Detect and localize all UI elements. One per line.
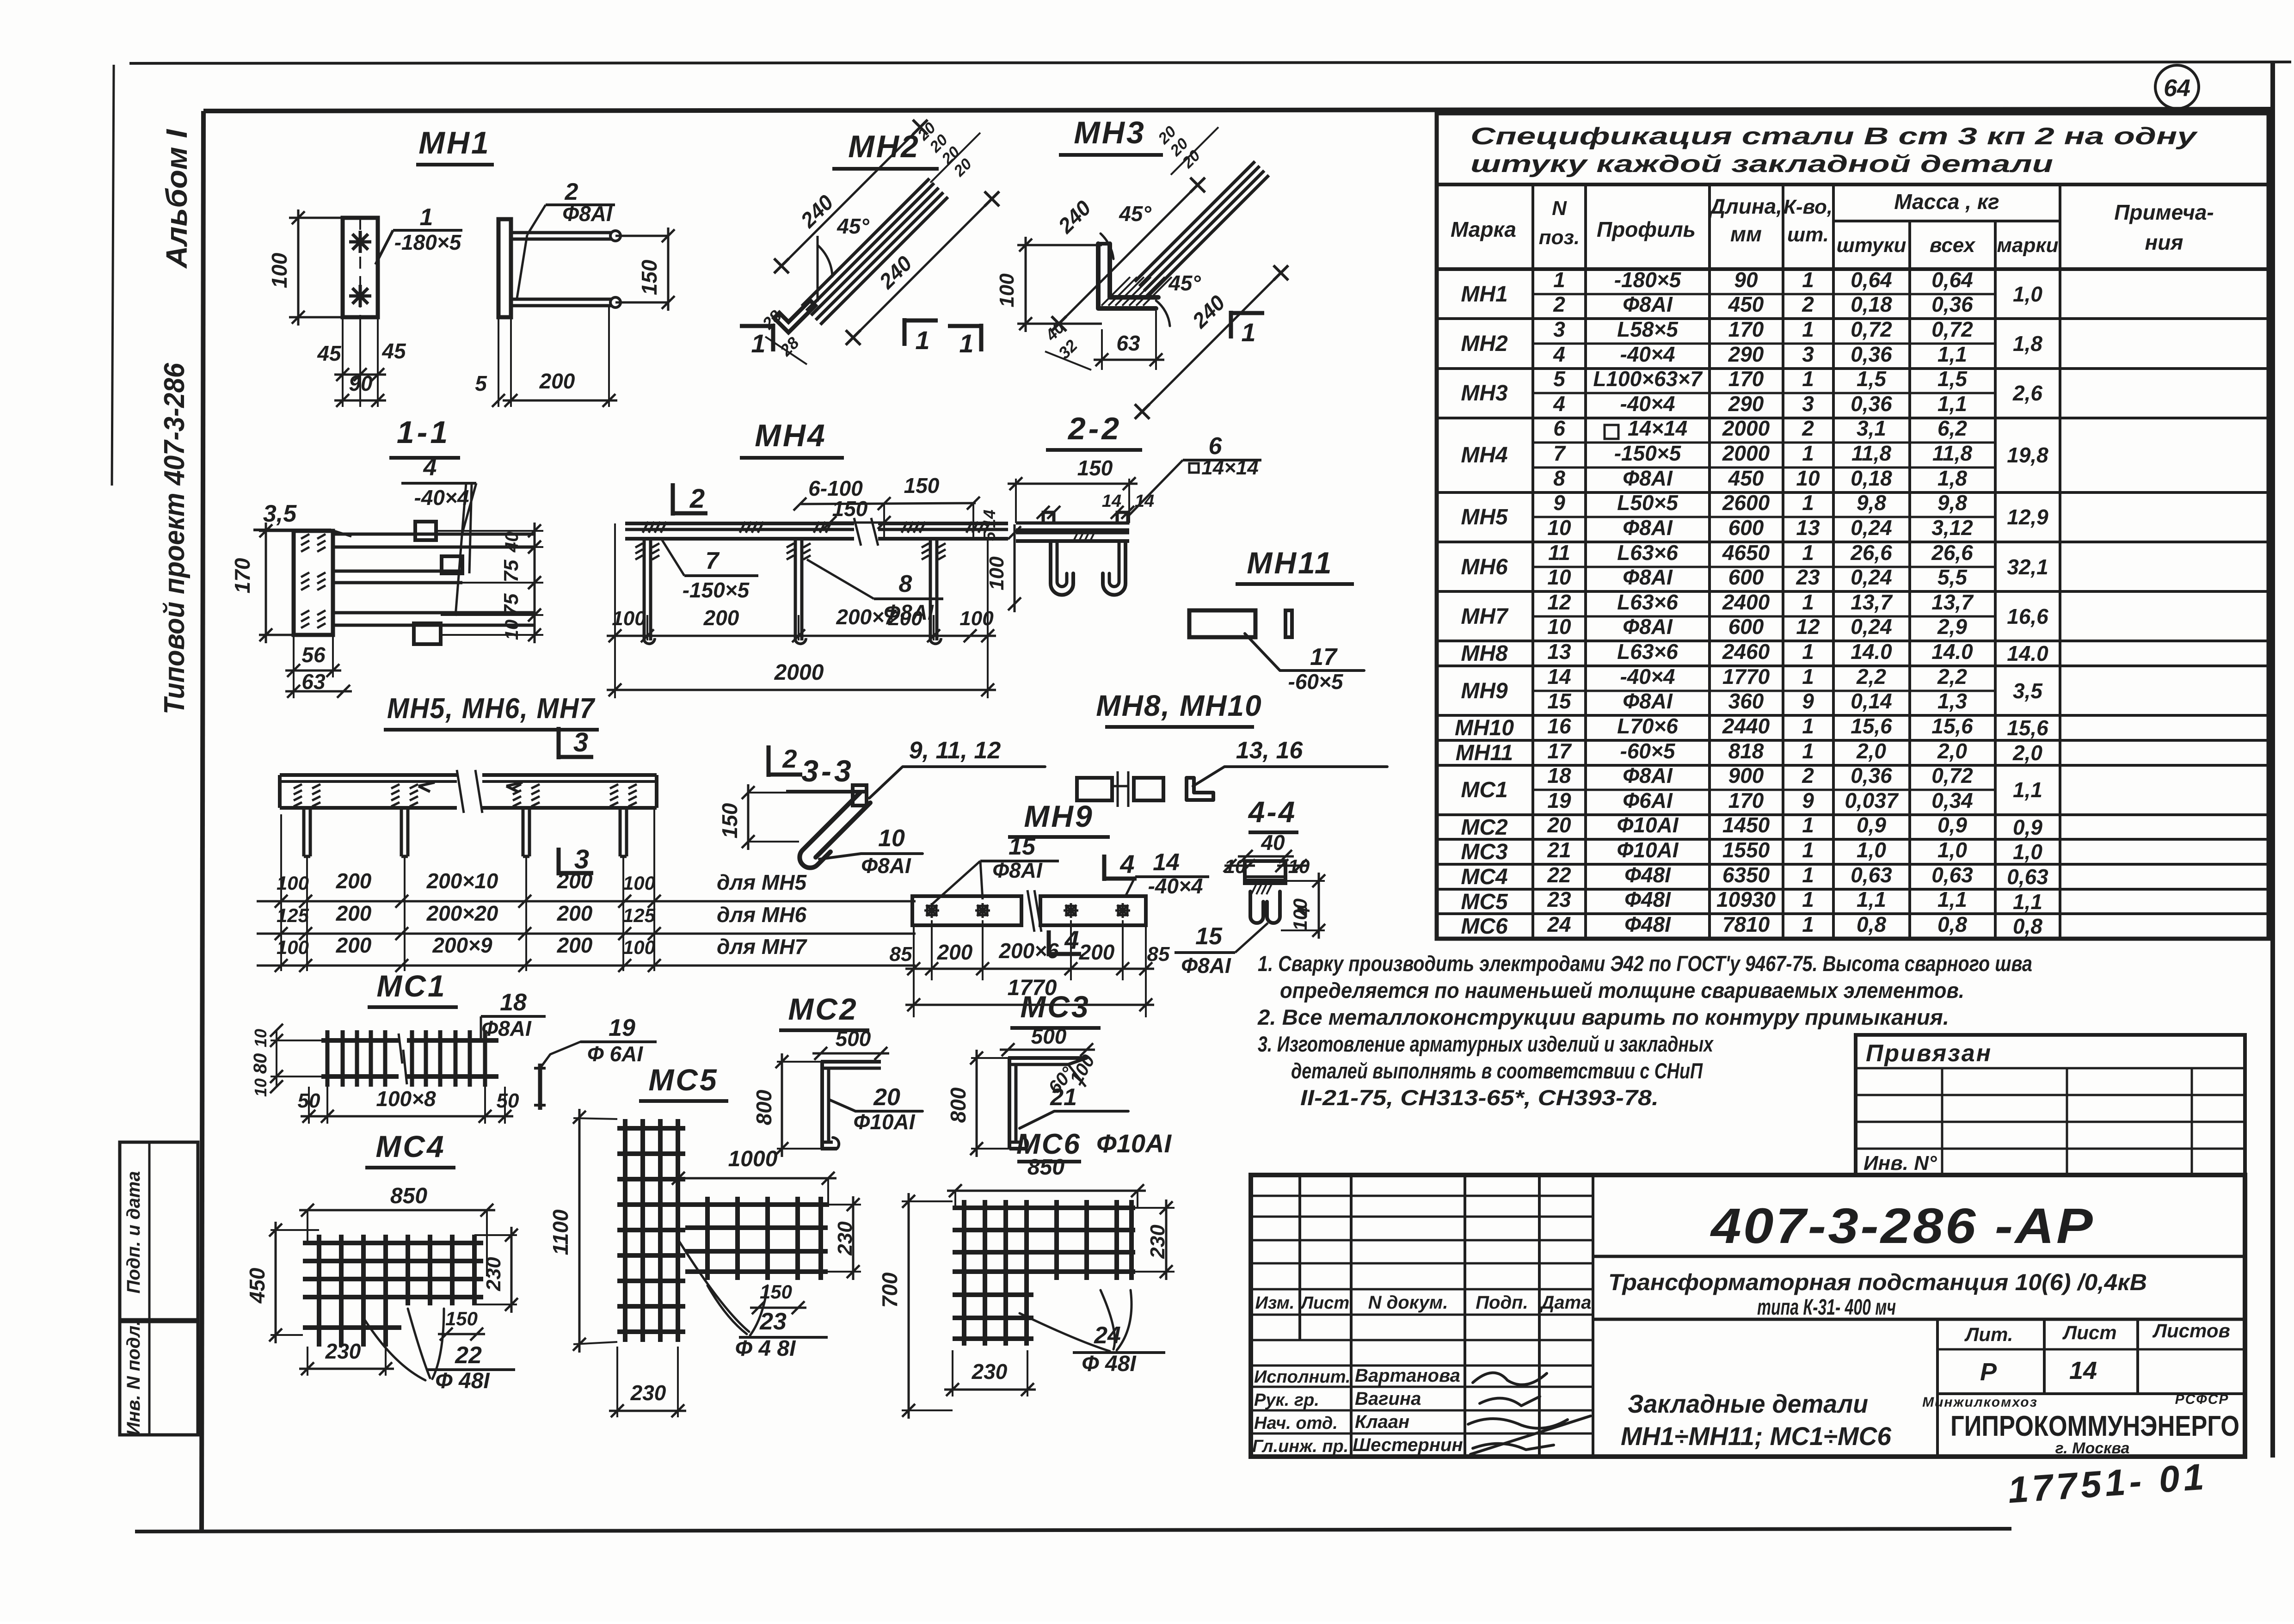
4-4 J hooks <box>1250 892 1280 923</box>
svg-text:2,9: 2,9 <box>1937 615 1967 639</box>
svg-text:МН10: МН10 <box>1455 716 1514 740</box>
svg-text:200: 200 <box>557 933 593 957</box>
svg-text:15,6: 15,6 <box>2007 716 2048 740</box>
svg-text:0,36: 0,36 <box>1851 763 1892 787</box>
svg-text:-40×4: -40×4 <box>1620 664 1675 689</box>
svg-text:150: 150 <box>832 497 868 521</box>
svg-text:1450: 1450 <box>1722 813 1770 837</box>
svg-text:3: 3 <box>1802 392 1814 416</box>
MH1 dim 100 left <box>267 209 343 326</box>
title 1-1 <box>389 415 460 458</box>
svg-text:16,6: 16,6 <box>2007 604 2048 628</box>
2-2 thickness labels 5 14 <box>980 510 999 541</box>
MH2 dim 240 upper left <box>774 120 928 273</box>
svg-text:Изм.: Изм. <box>1255 1293 1295 1313</box>
svg-text:50: 50 <box>298 1089 320 1112</box>
svg-text:2,2: 2,2 <box>1856 664 1886 689</box>
1-1 leader 4 -40x4 <box>401 454 476 616</box>
svg-text:2,6: 2,6 <box>2012 381 2042 405</box>
svg-text:L50×5: L50×5 <box>1617 491 1679 515</box>
svg-text:80: 80 <box>250 1053 271 1074</box>
svg-text:1550: 1550 <box>1722 838 1770 862</box>
svg-text:0,63: 0,63 <box>2007 865 2048 889</box>
MC4 leaders 22 Ф48I <box>363 1309 515 1393</box>
MC4 mesh <box>303 1235 483 1347</box>
MC2 leader 20 Ф10АI <box>829 1084 923 1134</box>
svg-text:90: 90 <box>349 371 373 395</box>
svg-text:0,72: 0,72 <box>1931 763 1973 787</box>
svg-text:МС3: МС3 <box>1461 840 1508 864</box>
notes line 6 <box>1300 1085 1659 1110</box>
svg-text:125: 125 <box>277 904 309 926</box>
svg-text:45°: 45° <box>1168 271 1201 295</box>
MC1 rail top <box>321 1038 498 1043</box>
svg-text:5: 5 <box>980 531 999 541</box>
svg-text:1: 1 <box>1802 367 1814 391</box>
svg-text:13, 16: 13, 16 <box>1236 737 1304 764</box>
svg-text:0,72: 0,72 <box>1931 317 1973 341</box>
svg-text:13: 13 <box>1796 516 1820 540</box>
signatures scribbles <box>1468 1373 1591 1454</box>
MC4 dim 230 right <box>474 1227 518 1313</box>
table group МН11 <box>1437 739 2269 765</box>
notes line 1 <box>1258 951 2032 976</box>
MH9 bar -40x4 left <box>912 896 1021 925</box>
svg-text:Ф48I: Ф48I <box>1624 863 1671 887</box>
svg-text:9: 9 <box>1553 491 1565 515</box>
svg-text:9,8: 9,8 <box>1937 491 1967 515</box>
svg-text:200: 200 <box>539 369 575 393</box>
MH4 plate -150x5 right segment <box>878 522 1008 539</box>
svg-text:II-21-75, СН313-65*, СН393-78: II-21-75, СН313-65*, СН393-78. <box>1300 1085 1659 1110</box>
svg-text:0,24: 0,24 <box>1851 615 1892 639</box>
sheet name <box>1621 1389 1892 1451</box>
MC1 rungs <box>327 1030 485 1087</box>
svg-text:Шестернин: Шестернин <box>1353 1435 1463 1455</box>
svg-text:16: 16 <box>1547 714 1571 738</box>
svg-text:1,5: 1,5 <box>1937 367 1968 391</box>
svg-text:13,7: 13,7 <box>1931 590 1974 614</box>
svg-text:230: 230 <box>325 1339 361 1363</box>
svg-text:21: 21 <box>1050 1084 1077 1111</box>
MC3 corner dims 60 100 <box>1045 1052 1099 1098</box>
svg-text:Альбом I: Альбом I <box>160 129 193 269</box>
svg-text:6,2: 6,2 <box>1937 416 1967 440</box>
svg-text:360: 360 <box>1728 689 1764 713</box>
MC3 channel piece <box>1008 1058 1087 1149</box>
MH1 anchor weld mark bottom <box>349 285 371 307</box>
svg-text:0,64: 0,64 <box>1851 268 1892 292</box>
MH3 section marks 1 <box>948 324 981 358</box>
svg-text:МН11: МН11 <box>1456 741 1513 765</box>
svg-text:МС4: МС4 <box>375 1129 445 1163</box>
svg-text:200: 200 <box>336 901 372 925</box>
svg-text:1: 1 <box>1802 863 1814 887</box>
MC5 dim 230 right <box>828 1196 861 1280</box>
svg-text:290: 290 <box>1728 342 1764 366</box>
MC1 bottom dims 50 100x8 50 <box>298 1087 519 1124</box>
svg-text:11: 11 <box>1548 541 1570 565</box>
svg-text:7810: 7810 <box>1722 912 1770 936</box>
svg-text:170: 170 <box>1728 317 1764 341</box>
svg-text:100: 100 <box>277 872 309 894</box>
svg-text:4650: 4650 <box>1722 541 1770 565</box>
svg-text:1000: 1000 <box>728 1147 778 1171</box>
svg-text:Дата: Дата <box>1540 1292 1592 1313</box>
svg-text:2: 2 <box>1802 292 1814 316</box>
svg-text:L70×6: L70×6 <box>1617 714 1678 738</box>
svg-text:0,34: 0,34 <box>1931 788 1973 812</box>
svg-text:10: 10 <box>502 620 522 640</box>
svg-text:11,8: 11,8 <box>1932 441 1973 465</box>
4-4 dim 100 <box>1281 873 1325 939</box>
svg-text:2400: 2400 <box>1722 590 1770 614</box>
svg-text:Ф8АI: Ф8АI <box>1623 516 1673 540</box>
bottom inventory number 17751-01 <box>2006 1456 2208 1511</box>
svg-text:2: 2 <box>1553 292 1565 316</box>
title MH1 <box>416 125 494 165</box>
svg-text:15,6: 15,6 <box>1851 714 1892 738</box>
MH1 leader 1 -180x5 <box>375 204 462 265</box>
MH3 dim 100 left <box>996 237 1102 332</box>
svg-text:850: 850 <box>1027 1155 1064 1180</box>
svg-text:0,8: 0,8 <box>2013 914 2042 938</box>
svg-text:45: 45 <box>381 339 406 363</box>
inv number label <box>1863 1152 1937 1175</box>
svg-text:20: 20 <box>873 1084 900 1111</box>
4-4 leader 15 Ф8АI <box>1175 923 1268 978</box>
MH1 side view: rod 2 bottom <box>511 297 621 308</box>
svg-text:-180×5: -180×5 <box>1614 268 1682 292</box>
2-2 leader 6 square 14x14 <box>1127 433 1261 517</box>
svg-text:Инв. N подл.: Инв. N подл. <box>123 1321 144 1436</box>
svg-text:10: 10 <box>251 1029 270 1047</box>
svg-text:19: 19 <box>609 1015 635 1041</box>
svg-text:1,5: 1,5 <box>1857 367 1887 391</box>
svg-text:-60×5: -60×5 <box>1620 739 1676 763</box>
svg-text:14.0: 14.0 <box>2007 641 2048 665</box>
title MC1 <box>368 969 458 1007</box>
svg-text:типа К-31- 400 мч: типа К-31- 400 мч <box>1757 1295 1896 1320</box>
svg-text:0,8: 0,8 <box>1937 912 1967 936</box>
svg-text:100: 100 <box>996 273 1018 308</box>
svg-text:100: 100 <box>623 936 655 958</box>
svg-text:3,5: 3,5 <box>263 500 297 527</box>
svg-text:1: 1 <box>1802 664 1814 689</box>
MH1 side view: rod 2 top <box>511 231 621 241</box>
MH9 dim 1770 <box>905 976 1154 1011</box>
svg-text:1: 1 <box>1802 268 1814 292</box>
svg-text:45°: 45° <box>1119 202 1151 226</box>
2-2 square bars on plate <box>1043 512 1128 523</box>
MH5-7 left segment angle plate <box>280 775 457 808</box>
svg-text:2440: 2440 <box>1722 714 1770 738</box>
svg-text:Масса , кг: Масса , кг <box>1894 190 1999 214</box>
svg-text:290: 290 <box>1728 392 1764 416</box>
MH11 plate edge view <box>1285 610 1292 637</box>
mesh 24 dim 850 <box>947 1155 1146 1208</box>
svg-text:1: 1 <box>1802 491 1814 515</box>
svg-text:1,8: 1,8 <box>2013 332 2042 356</box>
svg-text:1: 1 <box>751 329 765 358</box>
svg-text:N: N <box>1552 197 1567 220</box>
svg-text:Типовой проект 407-3-286: Типовой проект 407-3-286 <box>159 363 191 714</box>
svg-text:МС6: МС6 <box>1461 914 1508 939</box>
svg-text:1,1: 1,1 <box>1937 887 1967 911</box>
MH5-7 leg 1138 <box>513 784 540 856</box>
svg-text:8: 8 <box>1553 466 1565 490</box>
2-2 J hook left <box>1051 541 1073 595</box>
svg-text:Профиль: Профиль <box>1597 217 1696 241</box>
MH3 labels 40 32 <box>1041 318 1091 370</box>
svg-text:200×9: 200×9 <box>432 933 492 957</box>
svg-text:14: 14 <box>980 510 999 528</box>
svg-text:9, 11, 12: 9, 11, 12 <box>909 737 1001 764</box>
sheet outer top edge <box>129 62 2291 63</box>
svg-text:1,1: 1,1 <box>2013 778 2042 802</box>
svg-text:МН2: МН2 <box>848 129 920 164</box>
svg-text:150: 150 <box>718 803 742 838</box>
svg-text:15,6: 15,6 <box>1931 714 1973 738</box>
title block staff names <box>1252 1366 1463 1456</box>
2-2 dim 100 left <box>985 524 1021 612</box>
svg-text:Ф6АI: Ф6АI <box>1623 788 1673 812</box>
svg-text:125: 125 <box>623 904 656 926</box>
notes line 5 <box>1291 1058 1703 1083</box>
svg-text:г. Москва: г. Москва <box>2055 1439 2130 1457</box>
svg-text:1100: 1100 <box>548 1209 572 1255</box>
svg-text:поз.: поз. <box>1539 226 1580 249</box>
svg-text:МН5, МН6, МН7: МН5, МН6, МН7 <box>387 693 595 725</box>
svg-text:8: 8 <box>899 571 912 597</box>
title MH9 <box>1008 799 1110 837</box>
svg-text:Лист: Лист <box>2062 1322 2116 1343</box>
svg-text:85: 85 <box>1147 943 1170 966</box>
svg-text:2460: 2460 <box>1722 640 1770 664</box>
1-1 plate section <box>294 531 333 635</box>
svg-text:100×8: 100×8 <box>376 1087 436 1111</box>
svg-text:12,9: 12,9 <box>2007 505 2048 529</box>
svg-text:1-1: 1-1 <box>397 415 450 450</box>
svg-text:14: 14 <box>1102 492 1121 511</box>
svg-text:100: 100 <box>1289 898 1311 931</box>
svg-text:Длина,: Длина, <box>1708 194 1782 218</box>
svg-text:450: 450 <box>245 1267 269 1304</box>
svg-text:МС1: МС1 <box>376 969 446 1003</box>
svg-text:56: 56 <box>301 643 326 667</box>
mesh 24 horizontal arm <box>953 1200 1135 1280</box>
svg-text:0,36: 0,36 <box>1931 292 1973 316</box>
svg-text:штуку каждой закладной д: штуку каждой закладной детали <box>1470 151 2053 178</box>
svg-text:МН3: МН3 <box>1461 381 1508 406</box>
svg-text:Р: Р <box>1980 1358 1997 1386</box>
svg-text:Исполнит.: Исполнит. <box>1254 1367 1351 1387</box>
mesh 24 dim 230 right <box>1135 1200 1175 1280</box>
svg-text:14×14: 14×14 <box>1628 416 1687 440</box>
3-3 leader 10 Ф8АI <box>819 825 923 878</box>
MH5-7 dim extension lines <box>281 808 654 971</box>
svg-text:L63×6: L63×6 <box>1617 590 1678 614</box>
MH8 bar left part <box>1077 771 1128 807</box>
svg-text:3: 3 <box>1553 317 1565 341</box>
doc number 407-3-286 -AP <box>1593 1198 2245 1256</box>
svg-text:Минжилкомхоз: Минжилкомхоз <box>1922 1395 2038 1410</box>
svg-text:1,1: 1,1 <box>1937 392 1967 416</box>
MH9 leader 15 Ф8АI <box>932 833 1059 904</box>
MH9 hole 2316 <box>1064 903 1078 918</box>
3-3 dim 150 <box>718 784 855 850</box>
MH2 end spacing labels 20 <box>914 119 980 183</box>
svg-text:Трансформаторная подстанция: Трансформаторная подстанция 10(6) /0,4кВ <box>1608 1269 2147 1295</box>
mesh 24 leaders 24 Ф48I <box>1020 1290 1165 1376</box>
svg-text:-150×5: -150×5 <box>1614 441 1682 465</box>
svg-text:Гл.инж. пр.: Гл.инж. пр. <box>1252 1437 1348 1456</box>
svg-text:14: 14 <box>1135 492 1154 511</box>
svg-text:Примеча-: Примеча- <box>2114 200 2214 224</box>
svg-text:32,1: 32,1 <box>2007 555 2048 579</box>
svg-text:МН9: МН9 <box>1024 799 1094 833</box>
2-2 dim 150 <box>1008 456 1138 523</box>
MH5-7 break区 arrows <box>418 770 523 813</box>
svg-text:100: 100 <box>277 936 309 958</box>
table group МН8 <box>1437 640 2269 666</box>
svg-text:шт.: шт. <box>1787 223 1829 246</box>
svg-text:Лит.: Лит. <box>1964 1323 2013 1345</box>
MC5 dim 150 <box>750 1281 806 1314</box>
svg-text:200: 200 <box>888 607 923 630</box>
MC5 leaders 23 Ф48I <box>678 1239 828 1361</box>
title MH2 <box>832 129 939 169</box>
MH4 leg at 1727 <box>787 539 811 644</box>
svg-text:200: 200 <box>557 869 593 893</box>
MC2 channel piece <box>821 1062 881 1149</box>
svg-text:230: 230 <box>482 1257 505 1292</box>
svg-text:Ф8АI: Ф8АI <box>1181 953 1231 978</box>
svg-text:Рук. гр.: Рук. гр. <box>1254 1390 1319 1410</box>
svg-text:85: 85 <box>890 943 912 966</box>
MH5-7 dim row для МН5 <box>257 869 916 908</box>
svg-text:Листов: Листов <box>2152 1320 2230 1341</box>
MH8 angle end view <box>1187 778 1213 800</box>
svg-text:11,8: 11,8 <box>1851 441 1892 465</box>
svg-text:200: 200 <box>1079 940 1115 964</box>
svg-text:9: 9 <box>1802 689 1814 713</box>
MH4 dim chain row <box>607 523 996 698</box>
svg-text:100: 100 <box>985 556 1008 591</box>
MH5-7 section mark 3 upper <box>559 727 593 759</box>
MH5-7 dim row для МН7 <box>257 933 916 972</box>
1-1 dim 170 <box>230 523 294 643</box>
svg-text:Привязан: Привязан <box>1866 1040 1992 1067</box>
title MC5 <box>639 1063 728 1101</box>
MH3 end spacing labels <box>1155 123 1218 175</box>
svg-text:23: 23 <box>1796 565 1820 589</box>
svg-text:1: 1 <box>1802 887 1814 911</box>
svg-text:200×10: 200×10 <box>426 869 498 893</box>
svg-text:230: 230 <box>972 1359 1008 1384</box>
svg-text:100: 100 <box>267 252 291 288</box>
MH1 dims 45 45 90 <box>317 317 406 407</box>
table group МС2 <box>1437 813 2269 840</box>
svg-text:150: 150 <box>445 1308 478 1329</box>
svg-text:10: 10 <box>1547 615 1571 639</box>
svg-text:800: 800 <box>752 1089 776 1125</box>
svg-text:МН1÷МН11; МС1÷МС6: МН1÷МН11; МС1÷МС6 <box>1621 1421 1892 1451</box>
svg-text:3,5: 3,5 <box>2013 679 2043 703</box>
svg-text:МН8: МН8 <box>1461 641 1508 666</box>
svg-text:150: 150 <box>904 474 940 498</box>
svg-text:0,18: 0,18 <box>1851 466 1892 490</box>
svg-text:170: 170 <box>1728 367 1764 391</box>
margin label: Альбом I <box>160 129 193 269</box>
MC3 dim 800 <box>946 1050 1009 1157</box>
svg-text:МН2: МН2 <box>1461 332 1508 356</box>
svg-text:0,9: 0,9 <box>1857 813 1886 837</box>
svg-text:40: 40 <box>1261 830 1285 855</box>
svg-text:9,8: 9,8 <box>1857 491 1886 515</box>
MC2 dim 800 <box>752 1053 821 1157</box>
svg-text:Подп. и дата: Подп. и дата <box>123 1171 144 1294</box>
MC1 single rung detail <box>534 1064 546 1110</box>
svg-text:МН1: МН1 <box>1461 282 1507 307</box>
MH9 hole 2428 <box>1115 903 1130 918</box>
svg-text:Ф8АI: Ф8АI <box>1623 615 1673 639</box>
svg-text:ния: ния <box>2145 230 2183 254</box>
svg-text:26,6: 26,6 <box>1850 541 1892 565</box>
svg-text:МН11: МН11 <box>1247 546 1333 580</box>
MH8 leader 13,16 <box>1193 737 1387 786</box>
svg-text:Марка: Марка <box>1451 217 1516 241</box>
svg-text:200: 200 <box>937 940 973 964</box>
svg-text:1: 1 <box>1802 838 1814 862</box>
svg-text:1: 1 <box>1802 640 1814 664</box>
svg-text:L63×6: L63×6 <box>1617 541 1678 565</box>
table group МН4 <box>1437 416 2269 492</box>
title block outer <box>1251 1175 2245 1457</box>
svg-text:2600: 2600 <box>1722 491 1770 515</box>
svg-text:50: 50 <box>497 1089 519 1112</box>
svg-text:деталей выполнять в соответ: деталей выполнять в соответствии с СНиП <box>1291 1058 1703 1083</box>
svg-text:150: 150 <box>637 259 661 295</box>
svg-text:2: 2 <box>689 484 705 514</box>
svg-text:МС5: МС5 <box>1461 890 1508 914</box>
MH3 45deg labels <box>1101 202 1201 326</box>
svg-text:450: 450 <box>1728 292 1764 316</box>
svg-text:6: 6 <box>1553 416 1565 440</box>
table group МН2 <box>1437 317 2269 369</box>
svg-text:15: 15 <box>1195 923 1223 950</box>
svg-text:0,36: 0,36 <box>1851 392 1892 416</box>
svg-text:3,1: 3,1 <box>1857 416 1886 440</box>
MH2 assembly: angle + rods at 45deg <box>774 178 948 332</box>
svg-text:200: 200 <box>336 869 372 893</box>
svg-text:Спецификация стали В ст 3: Спецификация стали В ст 3 кп 2 на одну <box>1470 123 2198 150</box>
svg-text:600: 600 <box>1728 565 1764 589</box>
MH4 dim 2000 <box>607 660 996 696</box>
svg-text:10930: 10930 <box>1716 887 1776 911</box>
svg-text:24: 24 <box>1547 912 1571 936</box>
svg-text:Ф10АI: Ф10АI <box>1617 838 1679 862</box>
svg-text:15: 15 <box>1009 833 1036 860</box>
svg-text:1,1: 1,1 <box>1857 887 1886 911</box>
svg-text:2000: 2000 <box>774 660 824 685</box>
mesh 24 dim 230 bottom <box>944 1350 1036 1396</box>
MH9 break marks <box>1027 890 1041 932</box>
svg-text:200×7: 200×7 <box>836 605 897 629</box>
MC1 leader 18 Ф8АI <box>481 989 546 1040</box>
svg-text:5: 5 <box>475 371 487 395</box>
svg-text:0,9: 0,9 <box>1937 813 1967 837</box>
